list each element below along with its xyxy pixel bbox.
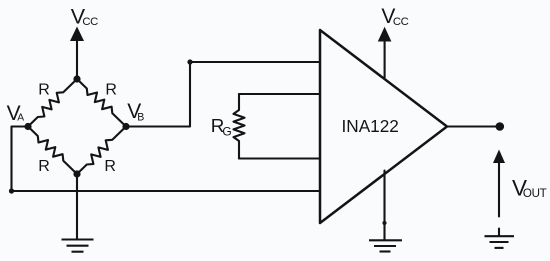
wire: output ground stub [498, 229, 500, 237]
wire: Vout arrow stem [498, 162, 500, 217]
wire: node VA left then down to ground bus [12, 127, 29, 192]
label VB [127, 100, 144, 123]
junction: amplifier V- lead [382, 221, 386, 225]
node: output [496, 122, 505, 131]
junction: ground bus left corner [9, 188, 14, 193]
wire: amplifier Vcc pin stem [384, 41, 386, 78]
arrowhead: Vout [493, 150, 505, 164]
wire: bridge bottom node down to ground symbol [76, 174, 78, 239]
node VB [122, 123, 129, 130]
arrowhead: Vcc (bridge) [70, 27, 84, 42]
label VA [7, 102, 25, 125]
junction: VB wire corner [187, 59, 192, 64]
resistor R2 (bridge top-right) [77, 79, 126, 127]
wire: ground bus from left corner to amplifier inverting input [12, 190, 321, 192]
label RG [211, 115, 232, 139]
svg-text:CC: CC [393, 16, 409, 28]
arrowhead: Vcc (amplifier) [378, 27, 392, 42]
svg-text:G: G [222, 125, 231, 139]
resistor R1 (bridge top-left) [28, 79, 77, 127]
svg-text:R: R [105, 81, 117, 98]
node: bridge bottom [73, 170, 80, 177]
svg-text:R: R [104, 158, 116, 175]
resistor RG (gain resistor) [234, 94, 245, 159]
label VCC (bridge) [71, 4, 98, 28]
svg-text:R: R [38, 158, 50, 175]
op-amp U1 INA122 triangle body [320, 30, 447, 223]
node VA [24, 123, 31, 130]
resistor R3 (bridge bottom-left) [28, 127, 77, 175]
ground (amplifier V-) [369, 240, 402, 251]
wire: top signal into amplifier non-inverting input [190, 61, 320, 63]
wire: amplifier output to node [447, 125, 497, 127]
wire: RG top lead to amplifier pin [239, 93, 320, 95]
wire: node VB right then up [126, 62, 190, 127]
wire: Vcc arrow stem to bridge top [76, 40, 78, 79]
label VCC (amplifier) [381, 5, 408, 28]
resistor R4 (bridge bottom-right) [77, 127, 126, 175]
svg-text:R: R [38, 81, 50, 98]
svg-text:CC: CC [82, 16, 98, 28]
ground (output reference) [485, 236, 515, 248]
node: bridge top [73, 75, 80, 82]
label VOUT [512, 175, 547, 200]
svg-text:B: B [137, 111, 144, 123]
wire: amplifier V- pin down to ground [383, 171, 385, 241]
svg-text:INA122: INA122 [342, 116, 399, 136]
wire: RG bottom lead to amplifier pin [239, 157, 320, 159]
svg-text:A: A [17, 113, 24, 124]
svg-text:OUT: OUT [523, 187, 547, 200]
ground (bridge) [62, 240, 94, 252]
